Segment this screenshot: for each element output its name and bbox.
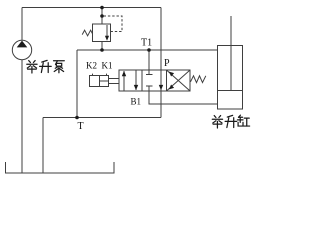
valve main body: [119, 70, 190, 91]
valve middle position: blocked B1 stub: [146, 85, 153, 87]
label 举升缸 (lift cylinder), hand-drawn strokes: [212, 115, 249, 128]
举: [27, 61, 37, 73]
wire: T1 port stub to valve: [148, 50, 150, 70]
cylinder piston: [218, 90, 243, 92]
缸: [237, 115, 249, 126]
arrowhead valve down flow: [134, 85, 138, 90]
wire: P supply drop to valve: [160, 8, 162, 71]
wire: bottom tank line: [43, 117, 161, 119]
svg-text:T1: T1: [141, 38, 152, 49]
valve left position: up flow line: [123, 71, 125, 91]
pilot box label stubs: [92, 74, 94, 76]
junction node T1 port: [147, 48, 151, 52]
valve middle position: blocked T1 stub: [148, 70, 150, 75]
cylinder 举升缸 body: [218, 46, 243, 110]
relief valve spring: [82, 30, 92, 36]
pump 举升泵 circle: [12, 40, 31, 59]
junction node on top line: [100, 6, 104, 10]
svg-text:T: T: [78, 121, 84, 132]
升: [225, 115, 237, 127]
junction node pilot tee: [100, 14, 104, 18]
relief valve body: [93, 24, 111, 42]
cylinder rod: [230, 16, 232, 91]
升: [40, 60, 52, 72]
arrowhead valve up flow: [122, 71, 126, 76]
valve right position: crossed flow diagonals: [167, 71, 190, 91]
wire: pump discharge riser: [21, 8, 23, 41]
valve middle position: P to outlet line: [160, 70, 162, 91]
wire: relief valve branch from top line: [101, 8, 103, 25]
pilot actuator push rods: [109, 78, 120, 80]
pump flow triangle: [17, 41, 28, 48]
arrowhead valve P-outlet down: [159, 85, 163, 90]
relief valve arrowhead: [105, 36, 109, 41]
arrowhead cross position lower: [169, 85, 174, 90]
wire: valve outlet to tank line: [160, 91, 162, 118]
wire: left tank return drop: [76, 50, 78, 118]
arrowhead cross position upper: [169, 72, 174, 77]
relief valve internal flow line: [106, 25, 108, 36]
泵: [54, 61, 65, 73]
valve position divider 1: [141, 70, 143, 91]
label 举升泵 (lift pump), hand-drawn strokes: [27, 60, 64, 73]
svg-text:P: P: [164, 58, 170, 69]
wire: tank line drop into tank: [42, 118, 44, 174]
wire: B1 line to cylinder: [149, 91, 218, 104]
wire: T1 return manifold: [77, 49, 218, 51]
wire: top pressure line from pump to valve P: [22, 7, 161, 9]
举: [212, 116, 222, 128]
svg-text:B1: B1: [131, 97, 142, 107]
pilot actuator box K2/K1: [90, 76, 109, 87]
valve left position: down flow line: [135, 71, 137, 91]
wire: pump suction down to tank: [21, 60, 23, 173]
valve position divider 2: [166, 70, 168, 91]
svg-text:K2: K2: [86, 61, 97, 71]
pilot line (dashed) of relief valve: [104, 16, 123, 32]
junction node relief drain: [100, 48, 104, 52]
valve return spring: [191, 76, 206, 83]
svg-text:K1: K1: [102, 61, 113, 71]
tank symbol: [6, 162, 115, 173]
junction node tank line: [75, 116, 79, 120]
relief valve drain line: [101, 42, 103, 51]
